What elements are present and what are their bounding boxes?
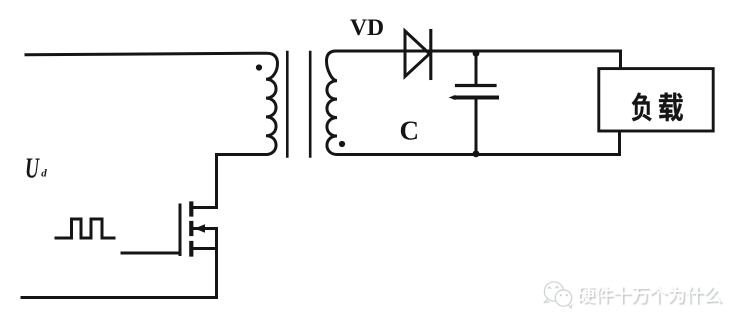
svg-text:C: C (400, 116, 420, 146)
svg-text:d: d (41, 168, 47, 180)
svg-text:VD: VD (350, 15, 384, 41)
svg-text:U: U (25, 154, 40, 185)
